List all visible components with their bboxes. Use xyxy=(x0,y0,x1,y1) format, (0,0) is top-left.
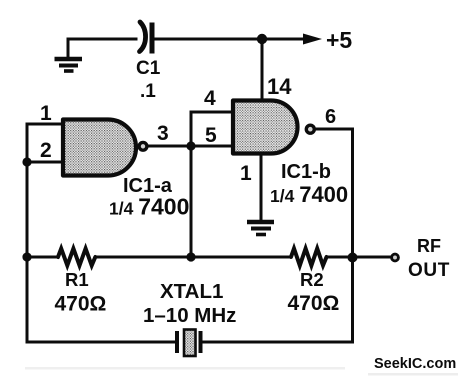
svg-text:R2: R2 xyxy=(300,269,324,290)
svg-text:SeekIC.com: SeekIC.com xyxy=(374,356,456,372)
svg-text:470Ω: 470Ω xyxy=(288,292,340,315)
svg-text:.1: .1 xyxy=(140,81,156,102)
svg-text:+5: +5 xyxy=(326,27,352,53)
svg-text:2: 2 xyxy=(40,139,52,162)
svg-text:3: 3 xyxy=(157,122,169,145)
svg-text:R1: R1 xyxy=(65,269,89,290)
svg-text:1: 1 xyxy=(40,102,52,125)
svg-text:1/4 7400: 1/4 7400 xyxy=(270,182,348,207)
svg-text:XTAL1: XTAL1 xyxy=(160,280,223,303)
svg-text:RF: RF xyxy=(417,236,441,256)
svg-text:IC1-b: IC1-b xyxy=(281,161,331,183)
svg-text:4: 4 xyxy=(204,87,216,110)
svg-text:1–10 MHz: 1–10 MHz xyxy=(143,304,236,327)
svg-text:1: 1 xyxy=(240,162,252,185)
svg-text:14: 14 xyxy=(267,74,292,99)
svg-text:OUT: OUT xyxy=(408,260,450,281)
svg-text:6: 6 xyxy=(325,106,336,128)
svg-text:470Ω: 470Ω xyxy=(55,293,107,316)
svg-text:5: 5 xyxy=(205,124,217,147)
svg-text:C1: C1 xyxy=(136,58,161,79)
